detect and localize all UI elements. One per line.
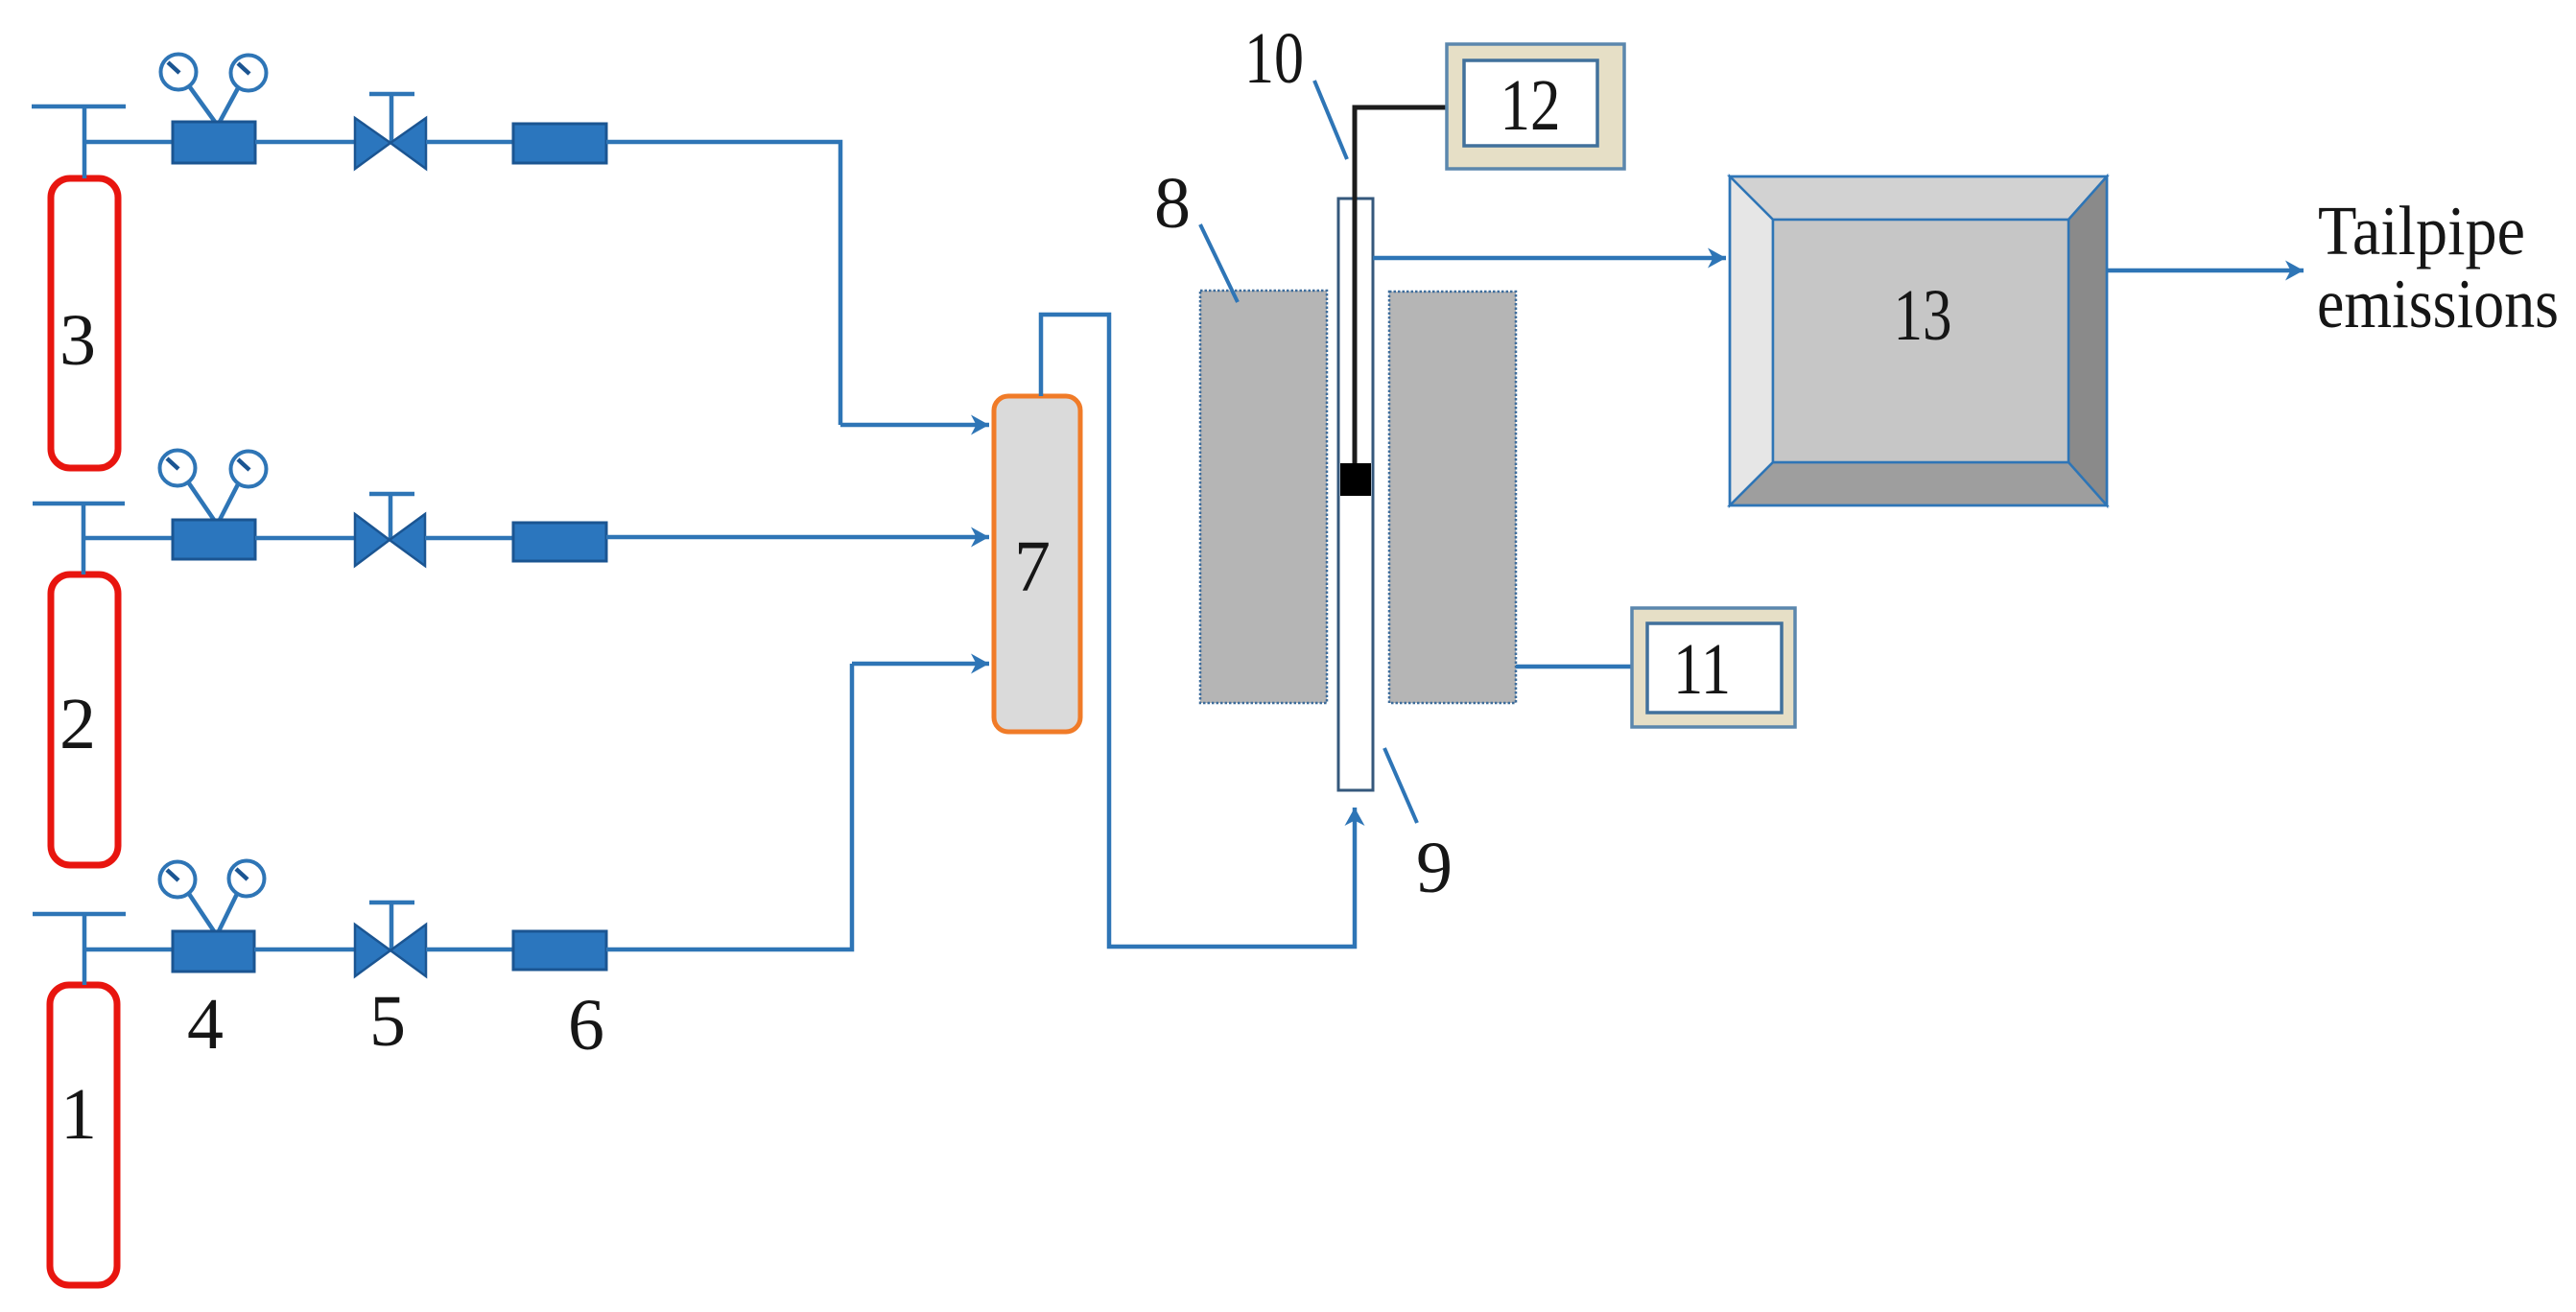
leader line label 8	[1200, 224, 1238, 302]
wire chamber outlet arrow	[2108, 269, 2304, 273]
cylinder 1 valve stem	[83, 914, 87, 985]
wire regulator to valve (line 3)	[255, 140, 355, 145]
gas cylinder 2	[51, 574, 118, 865]
wire line2 into mixer inlet	[606, 535, 989, 540]
thermocouple 10 wire	[1355, 107, 1447, 470]
wire line1 cylinder to regulator	[84, 948, 173, 952]
svg-text:12: 12	[1501, 65, 1561, 146]
pressure regulator 4 (line 1)	[160, 861, 265, 972]
display 11	[1632, 608, 1795, 727]
svg-text:5: 5	[369, 981, 406, 1062]
wire valve to MFC (line 2)	[425, 536, 513, 541]
wire regulator to valve (line 2)	[255, 536, 355, 541]
svg-text:8: 8	[1154, 163, 1191, 244]
wire line2 cylinder to regulator	[83, 536, 173, 541]
shut-off valve 5 (line 3)	[355, 94, 426, 169]
cylinder 2 valve stem	[82, 504, 86, 574]
wire tube to chamber 13	[1373, 256, 1726, 261]
svg-text:3: 3	[59, 300, 96, 381]
thermocouple 10 junction bead	[1340, 463, 1371, 496]
leader line label 9	[1384, 748, 1417, 823]
cylinder 1 valve bar	[33, 912, 126, 917]
wire line1 into mixer inlet	[852, 662, 989, 667]
svg-text:10: 10	[1244, 18, 1304, 99]
chamber 13 (3D box)	[1730, 176, 2107, 505]
gas cylinder 3	[51, 178, 118, 468]
mass flow controller 6 (line 2)	[513, 523, 606, 561]
svg-text:9: 9	[1416, 828, 1453, 908]
wire mixer outlet to tube bottom	[1041, 315, 1355, 947]
svg-text:emissions: emissions	[2317, 265, 2559, 342]
svg-text:Tailpipe: Tailpipe	[2318, 192, 2525, 269]
svg-text:11: 11	[1673, 629, 1731, 710]
svg-text:4: 4	[187, 984, 224, 1065]
wire furnace to display 11	[1516, 665, 1632, 669]
wire valve to MFC (line 3)	[426, 140, 513, 145]
wire line3 MFC to corner	[606, 142, 840, 425]
quartz tube 9	[1338, 199, 1373, 790]
display 12	[1447, 44, 1624, 169]
pressure regulator 4 (line 2)	[160, 451, 267, 560]
pressure regulator 4 (line 3)	[161, 55, 267, 164]
furnace block 8 (right)	[1389, 292, 1516, 703]
gas cylinder 1	[50, 985, 117, 1285]
svg-text:1: 1	[60, 1074, 97, 1155]
cylinder 2 valve bar	[33, 502, 125, 506]
leader line label 10	[1314, 81, 1347, 159]
svg-text:6: 6	[568, 985, 604, 1066]
svg-text:13: 13	[1894, 275, 1952, 356]
mass flow controller 6 (line 3)	[513, 124, 606, 163]
furnace block 8 (left)	[1200, 291, 1327, 703]
wire valve to MFC (line 1)	[426, 948, 513, 952]
wire line1 MFC to corner	[606, 664, 852, 949]
wire regulator to valve (line 1)	[254, 948, 355, 952]
svg-text:2: 2	[59, 684, 96, 764]
wire line3 into mixer inlet	[840, 423, 989, 428]
shut-off valve 5 (line 2)	[355, 494, 425, 566]
shut-off valve 5 (line 1)	[355, 902, 426, 976]
cylinder 3 valve stem	[83, 106, 87, 178]
mass flow controller 6 (line 1)	[513, 931, 606, 970]
cylinder 3 valve bar	[32, 105, 126, 109]
svg-text:7: 7	[1014, 527, 1051, 607]
gas mixer 7	[994, 396, 1080, 732]
wire line3 cylinder to regulator	[84, 140, 173, 145]
